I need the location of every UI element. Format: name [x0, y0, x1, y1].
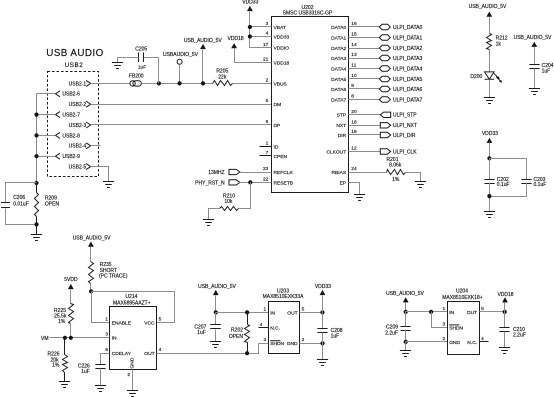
net ULPI_DATA5	[379, 76, 390, 81]
svg-text:ULPI_DATA3: ULPI_DATA3	[393, 56, 422, 62]
wire U203 OUT	[300, 312, 323, 314]
svg-text:N.C.: N.C.	[467, 340, 477, 346]
ground R210	[203, 220, 214, 226]
ground U203	[317, 360, 328, 366]
wire C210 to ground	[504, 332, 506, 348]
junction U204 IN node	[404, 310, 408, 314]
net ULPI_DATA4	[379, 66, 390, 71]
capacitor C204 1uF	[529, 65, 539, 69]
ground C204	[529, 89, 540, 95]
wire to R210	[239, 183, 251, 209]
svg-text:4: 4	[266, 31, 269, 37]
wire USB2-5 to ground	[91, 167, 109, 182]
svg-text:1: 1	[264, 306, 267, 312]
svg-text:R202: R202	[231, 328, 243, 334]
svg-text:DATA0: DATA0	[331, 25, 346, 31]
ground EP	[354, 195, 365, 201]
svg-text:1: 1	[266, 140, 269, 146]
wire VBAT stub	[250, 26, 272, 28]
net ULPI_DATA6	[379, 86, 390, 91]
svg-text:ULPI_DATA0: ULPI_DATA0	[393, 25, 422, 31]
wire DATA3 to tag	[349, 58, 380, 60]
svg-text:CDELAY: CDELAY	[112, 351, 132, 357]
svg-text:SMSC USB3316C-GP: SMSC USB3316C-GP	[283, 11, 333, 17]
svg-text:USB2-5: USB2-5	[69, 165, 87, 171]
junction USBAUDIO_5V	[178, 81, 182, 85]
wire USB2-1 to FB200	[91, 83, 131, 85]
wire to C203 top	[490, 159, 527, 180]
svg-text:USB AUDIO: USB AUDIO	[46, 48, 103, 59]
svg-text:USB2-4: USB2-4	[69, 144, 87, 150]
svg-text:DM: DM	[274, 102, 282, 108]
svg-text:18: 18	[351, 119, 357, 125]
svg-text:VDD33: VDD33	[274, 34, 290, 40]
wire U204 OUT	[480, 311, 505, 313]
svg-text:USB2-6: USB2-6	[62, 92, 80, 98]
junction R202 bottom	[245, 351, 249, 355]
svg-text:ULPI_DATA4: ULPI_DATA4	[393, 66, 422, 72]
wire VDDIO stub	[250, 47, 272, 49]
svg-text:DATA4: DATA4	[331, 66, 346, 72]
svg-text:USB2: USB2	[65, 62, 84, 69]
svg-text:GND: GND	[129, 357, 135, 368]
svg-text:ULPI_DATA2: ULPI_DATA2	[393, 46, 422, 52]
svg-text:DATA5: DATA5	[331, 77, 346, 83]
svg-text:2: 2	[266, 77, 269, 83]
svg-text:STP: STP	[337, 113, 347, 119]
wire PHY_RST_N to RESETB	[240, 182, 272, 184]
wire USB2-4 stub	[91, 145, 101, 147]
svg-text:DATA7: DATA7	[331, 97, 346, 103]
svg-text:2: 2	[127, 372, 130, 378]
wire C207 to ground	[215, 330, 217, 342]
wire R210 to ground	[209, 209, 220, 220]
svg-text:13MHZ: 13MHZ	[208, 170, 224, 176]
svg-text:VBAT: VBAT	[274, 25, 286, 31]
svg-text:RESETB: RESETB	[274, 180, 294, 186]
op U202 SMSC USB3316C-GP body	[272, 17, 349, 193]
wire to C205	[144, 58, 159, 84]
junction USB_AUDIO_5V	[201, 81, 205, 85]
svg-text:1uF: 1uF	[331, 333, 340, 339]
svg-text:DIR: DIR	[338, 133, 347, 139]
svg-text:2.2uF: 2.2uF	[513, 333, 526, 339]
resistor R209 OPEN	[36, 183, 38, 193]
wire USB2-6 to shield chain	[37, 93, 56, 95]
wire to R235	[90, 247, 92, 262]
wire C204 to ground	[534, 69, 536, 89]
svg-text:C205: C205	[135, 46, 147, 52]
resistor R225 25.5k 1%	[69, 304, 74, 324]
svg-text:3: 3	[443, 321, 446, 327]
svg-text:14: 14	[351, 42, 357, 48]
svg-text:ID: ID	[274, 144, 279, 150]
junction U203 OUT node	[320, 310, 324, 314]
wire CPEN stub	[260, 155, 272, 157]
wire to ground U203	[322, 344, 324, 360]
svg-text:GND: GND	[449, 340, 460, 346]
junction VBAT	[248, 25, 252, 29]
svg-text:IN: IN	[270, 310, 275, 316]
svg-text:0.01uF: 0.01uF	[13, 202, 29, 208]
svg-text:EP: EP	[340, 180, 347, 186]
svg-text:DP: DP	[274, 123, 281, 129]
svg-text:MAX8510EXK18+: MAX8510EXK18+	[442, 295, 483, 301]
svg-text:8: 8	[351, 94, 354, 100]
svg-text:ULPI_CLK: ULPI_CLK	[393, 149, 417, 155]
svg-text:20: 20	[351, 109, 357, 115]
wire C203 bottom	[490, 183, 527, 197]
svg-text:USB2-1: USB2-1	[69, 81, 87, 87]
svg-text:ULPI_DIR: ULPI_DIR	[393, 133, 416, 139]
wire R225 to VM	[70, 324, 72, 338]
svg-text:N.C.: N.C.	[270, 326, 280, 332]
svg-text:2: 2	[443, 336, 446, 342]
net ULPI_DATA0	[379, 24, 390, 29]
wire DATA6 to tag	[349, 88, 380, 90]
junction U203 IN node	[214, 310, 218, 314]
wire DATA0 to tag	[349, 26, 380, 28]
junction C206/R209 bottom	[34, 222, 38, 226]
wire D200 to ground	[489, 80, 491, 98]
junction shield to C206 branch	[34, 181, 38, 185]
capacitor C209 2.2uF	[405, 312, 407, 327]
net ULPI_CLK	[380, 149, 390, 154]
svg-text:ENABLE: ENABLE	[112, 320, 132, 326]
junction VDD33 cap bottom	[487, 194, 491, 198]
net ULPI_DIR	[380, 132, 390, 137]
svg-text:22: 22	[263, 176, 269, 182]
ground R201	[415, 182, 426, 188]
svg-text:OPEN: OPEN	[45, 202, 60, 208]
svg-text:21: 21	[263, 56, 269, 62]
svg-text:GND: GND	[287, 341, 298, 347]
svg-text:DATA3: DATA3	[331, 56, 346, 62]
svg-text:10k: 10k	[224, 199, 233, 205]
junction VM R225	[69, 336, 73, 340]
svg-text:OUT: OUT	[144, 351, 154, 357]
svg-text:MAX6895AAZT+: MAX6895AAZT+	[113, 301, 151, 307]
wire U203 GND	[300, 343, 323, 345]
wire U214 OUT to U203 SHDN	[157, 344, 269, 354]
wire VDD33 stub	[250, 36, 272, 38]
svg-text:USB2-3: USB2-3	[69, 123, 87, 129]
wire to R225	[70, 290, 72, 304]
wire CLKOUT to tag	[349, 151, 381, 153]
wire N.C. stub	[259, 327, 269, 329]
svg-text:3: 3	[264, 337, 267, 343]
svg-text:23: 23	[263, 166, 269, 172]
wire to VCC over top	[92, 292, 175, 323]
wire DATA5 to tag	[349, 78, 380, 80]
svg-text:VDD18: VDD18	[228, 36, 244, 42]
resistor R202 OPEN	[247, 313, 249, 325]
connector pin USB2-6	[55, 91, 60, 97]
svg-text:0.1uF: 0.1uF	[534, 182, 547, 188]
svg-text:ULPI_DATA1: ULPI_DATA1	[393, 35, 422, 41]
wire to ground U204	[405, 342, 407, 351]
capacitor C226 1uF	[95, 365, 105, 369]
svg-text:VDD33: VDD33	[315, 284, 331, 290]
svg-text:SHDN: SHDN	[270, 341, 284, 347]
capacitor C203 0.1uF	[521, 180, 531, 184]
svg-text:11: 11	[351, 63, 356, 69]
svg-text:VM: VM	[41, 336, 49, 342]
wire R212 to D200	[489, 50, 491, 72]
wire SHDN branch	[432, 312, 448, 328]
svg-text:ULPI_STP: ULPI_STP	[393, 113, 417, 119]
svg-text:OUT: OUT	[467, 310, 477, 316]
svg-text:USB_AUDIO_5V: USB_AUDIO_5V	[514, 35, 552, 41]
connector pin USB2-7	[55, 112, 60, 118]
junction R235 out	[89, 289, 93, 293]
svg-text:4: 4	[481, 336, 484, 342]
svg-text:C206: C206	[13, 195, 25, 201]
svg-text:USB_AUDIO_5V: USB_AUDIO_5V	[386, 291, 424, 297]
svg-text:5VDD: 5VDD	[64, 277, 78, 283]
wire RBIAS to R201	[349, 172, 387, 174]
wire C206 bottom branch	[6, 209, 37, 225]
junction VM R226	[63, 336, 67, 340]
wire STP to tag	[349, 114, 381, 116]
wire DIR to tag	[349, 134, 381, 136]
svg-text:15: 15	[351, 32, 357, 38]
svg-text:5: 5	[302, 306, 305, 312]
node VM wire	[50, 337, 110, 339]
svg-text:17: 17	[263, 42, 269, 48]
wire to ENABLE	[92, 292, 110, 323]
svg-text:2.2uF: 2.2uF	[385, 330, 398, 336]
resistor R226 20k 1%	[64, 338, 66, 355]
svg-text:1k: 1k	[496, 41, 502, 47]
svg-text:8.06k: 8.06k	[389, 163, 402, 169]
connector pin USB2-8	[55, 132, 60, 138]
wire to U203 IN	[216, 312, 269, 314]
wire EP to ground	[349, 183, 360, 195]
wire shield chain vertical	[36, 94, 38, 183]
svg-text:13: 13	[351, 52, 357, 58]
junction RESETB pulldown	[248, 180, 252, 184]
wire R235 to junction	[90, 284, 92, 292]
net ULPI_DATA1	[379, 35, 390, 40]
svg-text:ULPI_DATA5: ULPI_DATA5	[393, 77, 422, 83]
wire to C204	[534, 47, 536, 65]
capacitor C210 2.2uF	[504, 312, 506, 328]
capacitor C205 1uF	[139, 53, 144, 63]
net ULPI_NXT	[380, 123, 390, 128]
junction C205 branch	[157, 81, 161, 85]
wire C206 top branch	[6, 183, 37, 203]
wire to R212	[489, 17, 491, 34]
svg-text:VDD33: VDD33	[242, 0, 258, 5]
wire C226 to ground	[100, 369, 102, 386]
svg-text:USB2-7: USB2-7	[62, 113, 80, 119]
svg-text:D200: D200	[470, 74, 482, 80]
junction R202 top	[245, 310, 249, 314]
ground shield	[31, 235, 42, 241]
junction U203 GND node	[320, 341, 324, 345]
capacitor C202 0.1uF	[489, 159, 491, 180]
svg-text:1%: 1%	[58, 319, 66, 325]
wire DATA7 to tag	[349, 99, 380, 101]
svg-text:DATA6: DATA6	[331, 87, 346, 93]
svg-text:1: 1	[105, 316, 108, 322]
capacitor C207 1uF	[215, 313, 217, 325]
wire NXT to tag	[349, 125, 381, 127]
wire 13MHZ to REFCLK	[240, 172, 272, 174]
svg-text:1uF: 1uF	[197, 330, 206, 336]
svg-text:5: 5	[481, 306, 484, 312]
svg-text:CPEN: CPEN	[274, 154, 288, 160]
wire C209 bottom	[405, 330, 407, 342]
resistor R235 SHORT (PC TRACE)	[89, 262, 94, 284]
ground C226	[95, 386, 106, 392]
wire USB2-8 stub	[37, 135, 56, 137]
svg-text:1uF: 1uF	[81, 369, 90, 375]
capacitor C206 0.01uF	[1, 203, 10, 208]
ground VDD33 caps	[484, 212, 495, 218]
wire R201 to ground	[406, 173, 421, 182]
wire USB2-9 stub	[37, 156, 56, 158]
junction VDD33 cap top	[487, 156, 491, 160]
connector USB2 dashed outline	[48, 72, 99, 177]
net ULPI_DATA7	[379, 97, 390, 102]
svg-text:6: 6	[266, 119, 269, 125]
svg-text:REFCLK: REFCLK	[274, 170, 294, 176]
wire U214 GND to ground	[132, 370, 134, 391]
wire to U204 IN	[406, 311, 448, 313]
svg-text:OPEN: OPEN	[229, 334, 244, 340]
svg-text:RBIAS: RBIAS	[332, 170, 347, 176]
ground U214	[127, 391, 138, 397]
svg-text:1uF: 1uF	[542, 68, 551, 74]
svg-text:USB2-8: USB2-8	[62, 133, 80, 139]
svg-text:R209: R209	[45, 196, 57, 202]
svg-text:USB_AUDIO_5V: USB_AUDIO_5V	[73, 236, 111, 242]
ground C207	[210, 342, 221, 348]
svg-text:USB_AUDIO_5V: USB_AUDIO_5V	[184, 38, 222, 44]
svg-text:(PC TRACE): (PC TRACE)	[99, 273, 128, 279]
ground C210	[499, 348, 510, 354]
ground USB2-5	[103, 182, 114, 188]
svg-text:24: 24	[351, 166, 357, 172]
svg-text:IN: IN	[449, 310, 454, 316]
svg-text:4: 4	[159, 347, 162, 353]
svg-text:VDDIO: VDDIO	[274, 46, 290, 52]
wire DATA4 to tag	[349, 68, 380, 70]
svg-text:PHY_RST_N: PHY_RST_N	[195, 180, 225, 186]
svg-text:1%: 1%	[392, 177, 400, 183]
wire CDELAY to C226	[101, 354, 110, 365]
svg-text:22k: 22k	[218, 75, 227, 81]
op U214 MAX6895AAZT+ body	[110, 307, 157, 370]
svg-text:3: 3	[105, 332, 108, 338]
svg-text:NXT: NXT	[336, 123, 346, 129]
connector pin USB2-9	[55, 153, 60, 159]
svg-text:VDD18: VDD18	[497, 292, 513, 298]
svg-text:SHDN: SHDN	[449, 325, 463, 331]
svg-text:0.1uF: 0.1uF	[497, 182, 510, 188]
wire C205 to ground	[118, 58, 139, 63]
ground U204	[400, 351, 411, 357]
svg-text:5: 5	[266, 98, 269, 104]
wire R205 to VBUS pin 2	[233, 83, 272, 85]
junction U204 OUT node	[503, 310, 507, 314]
resistor R212 1k	[487, 34, 492, 50]
op U204 MAX8510EXK18+ body	[448, 302, 480, 355]
svg-text:6: 6	[105, 347, 108, 353]
svg-text:VCC: VCC	[144, 320, 155, 326]
svg-text:U214: U214	[125, 294, 137, 300]
svg-text:2: 2	[302, 337, 305, 343]
wire USB2-3 to DP	[91, 124, 272, 126]
net ULPI_DATA2	[379, 45, 390, 50]
wire USB2-2 to DM	[91, 104, 272, 106]
op U203 MAX8510EXK33A body	[269, 302, 300, 354]
svg-text:USB2-9: USB2-9	[62, 154, 80, 160]
junction VDD33	[248, 34, 252, 38]
svg-text:CLKOUT: CLKOUT	[326, 149, 346, 155]
svg-text:MAX8510EXK33A: MAX8510EXK33A	[263, 294, 305, 300]
junction U204 GND node	[404, 340, 408, 344]
wire ID stub	[260, 146, 272, 148]
svg-text:OUT: OUT	[287, 310, 297, 316]
svg-text:DATA1: DATA1	[331, 35, 346, 41]
net ULPI_STP	[380, 112, 390, 117]
svg-text:1uF: 1uF	[138, 64, 146, 70]
svg-text:USB2-2: USB2-2	[69, 102, 87, 108]
svg-text:FB200: FB200	[129, 74, 144, 80]
svg-text:5: 5	[159, 316, 162, 322]
svg-text:USB_AUDIO_5V: USB_AUDIO_5V	[469, 4, 507, 10]
ground D200	[484, 98, 495, 104]
svg-text:VDD33: VDD33	[482, 131, 498, 137]
wire FB200 to R205	[142, 83, 213, 85]
ground C205	[112, 63, 123, 69]
junction shield-9	[34, 154, 38, 158]
capacitor C208 1uF	[322, 313, 324, 329]
junction shield-7	[34, 113, 38, 117]
wire VDD18 to pin 21	[235, 49, 272, 63]
svg-text:1: 1	[443, 306, 446, 312]
wire U204 GND	[406, 341, 448, 343]
wire DATA2 to tag	[349, 48, 380, 50]
junction shield-8	[34, 133, 38, 137]
svg-text:IN: IN	[112, 336, 117, 342]
wire R226 to ground	[64, 373, 66, 382]
wire C202 bottom	[489, 183, 491, 212]
svg-text:ULPI_DATA7: ULPI_DATA7	[393, 97, 422, 103]
junction U204 SHDN branch	[429, 310, 433, 314]
svg-text:1%: 1%	[52, 363, 60, 369]
svg-text:VBUS: VBUS	[274, 81, 288, 87]
svg-text:USBAUDIO_5V: USBAUDIO_5V	[163, 52, 199, 58]
wire DATA1 to tag	[349, 37, 380, 39]
svg-text:ULPI_DATA6: ULPI_DATA6	[393, 87, 422, 93]
ground R226	[59, 382, 70, 388]
svg-text:DATA2: DATA2	[331, 46, 346, 52]
wire U204 N.C. stub	[480, 341, 489, 343]
svg-text:U204: U204	[456, 289, 468, 295]
net ULPI_DATA3	[379, 55, 390, 60]
svg-text:ULPI_NXT: ULPI_NXT	[393, 123, 417, 129]
svg-text:VDD18: VDD18	[274, 60, 290, 66]
svg-text:USB_AUDIO_5V: USB_AUDIO_5V	[198, 284, 236, 290]
wire to ground	[36, 225, 38, 235]
wire USB2-7 stub	[37, 114, 56, 116]
svg-text:12: 12	[351, 146, 357, 152]
